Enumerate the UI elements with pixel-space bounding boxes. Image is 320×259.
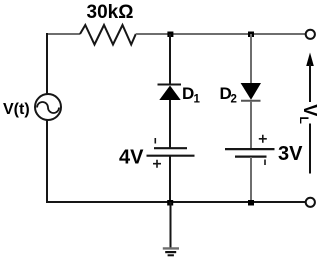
arrow VL head (306, 53, 314, 67)
battery B1 4V bottom plate (positive, long) (147, 155, 195, 157)
node junction bottom D1/ground (167, 200, 173, 206)
svg-text:D: D (182, 84, 194, 103)
svg-text:L: L (297, 117, 311, 124)
battery B2 3V bottom plate (negative, short) (235, 156, 267, 158)
arrow VL shaft lower (309, 124, 311, 174)
wire D1 branch middle (169, 100, 171, 148)
battery B1 4V top plate (negative, short) (154, 147, 187, 149)
svg-text:V: V (300, 104, 320, 116)
wire top horizontal from resistor to right terminal (136, 33, 306, 35)
svg-text:1: 1 (194, 94, 201, 106)
svg-text:4V: 4V (119, 147, 144, 169)
terminal bottom-right open circle (306, 198, 315, 207)
source V(t) sine wave (37, 102, 59, 113)
arrow VL shaft upper (309, 64, 311, 102)
battery B2 plus sign (259, 135, 267, 143)
svg-text:2: 2 (231, 94, 237, 106)
node junction top D1 (167, 32, 173, 38)
terminal top-right open circle (306, 30, 315, 39)
svg-text:V(t): V(t) (3, 101, 30, 118)
battery B2 minus tick (264, 160, 266, 166)
node junction bottom D2 (248, 200, 254, 206)
diode D1 triangle (159, 86, 180, 101)
node junction top D2 (248, 32, 254, 38)
wire D2 branch middle (250, 101, 252, 149)
battery B2 3V top plate (positive, long) (225, 148, 275, 150)
wire ground stem (170, 202, 172, 248)
svg-text:3V: 3V (278, 143, 303, 165)
battery B1 plus sign (153, 160, 161, 168)
wire bottom horizontal (46, 201, 306, 203)
diode D2 triangle (241, 83, 261, 100)
diode D1 cathode bar (158, 84, 182, 86)
ground symbol (163, 248, 179, 255)
wire D2 branch lower (250, 157, 252, 201)
diode D2 cathode bar (241, 100, 261, 102)
resistor R1 30kΩ zigzag (80, 25, 136, 45)
svg-text:30kΩ: 30kΩ (87, 2, 134, 23)
wire D2 branch upper (250, 34, 252, 83)
label VL rotated (297, 104, 320, 124)
wire top-left horizontal segment (46, 33, 80, 35)
wire left vertical lower (46, 120, 48, 204)
wire left vertical upper (46, 33, 48, 95)
battery B1 minus tick (154, 138, 156, 144)
source V(t) circle U1 (35, 94, 61, 120)
wire D1 branch upper (169, 34, 171, 84)
wire D1 branch lower (169, 156, 171, 203)
